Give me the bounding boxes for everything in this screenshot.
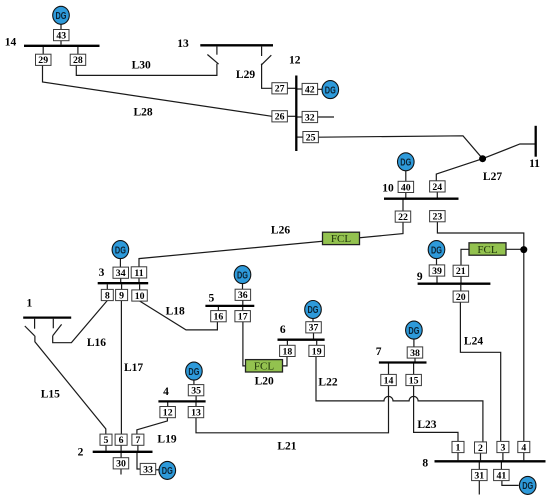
svg-text:DG: DG: [522, 480, 533, 492]
svg-text:L17: L17: [124, 362, 143, 374]
svg-text:19: 19: [312, 346, 322, 357]
svg-text:DG: DG: [325, 84, 336, 96]
svg-text:37: 37: [309, 323, 319, 334]
svg-text:39: 39: [432, 266, 442, 277]
svg-text:35: 35: [191, 386, 201, 397]
svg-text:13: 13: [191, 408, 201, 419]
svg-text:2: 2: [78, 447, 84, 459]
svg-text:29: 29: [38, 55, 48, 66]
svg-text:11: 11: [134, 268, 143, 279]
svg-text:L23: L23: [417, 419, 436, 431]
svg-text:26: 26: [275, 112, 285, 123]
svg-text:11: 11: [529, 158, 540, 170]
svg-text:DG: DG: [56, 10, 67, 22]
svg-text:DG: DG: [400, 157, 411, 169]
svg-text:FCL: FCL: [477, 244, 497, 256]
svg-text:3: 3: [99, 267, 105, 279]
svg-text:3: 3: [500, 442, 505, 453]
svg-text:6: 6: [119, 435, 124, 446]
svg-text:DG: DG: [237, 269, 248, 281]
svg-text:DG: DG: [408, 325, 419, 337]
svg-text:38: 38: [410, 348, 420, 359]
svg-text:5: 5: [209, 293, 215, 305]
svg-text:30: 30: [116, 459, 126, 470]
svg-text:21: 21: [456, 266, 466, 277]
svg-text:22: 22: [398, 212, 408, 223]
svg-text:8: 8: [105, 290, 110, 301]
svg-text:DG: DG: [115, 244, 126, 256]
svg-text:1: 1: [456, 442, 461, 453]
svg-text:1: 1: [27, 297, 33, 309]
svg-text:12: 12: [289, 55, 301, 67]
svg-text:L27: L27: [483, 171, 502, 183]
svg-text:31: 31: [474, 470, 484, 481]
svg-text:14: 14: [384, 375, 394, 386]
svg-text:DG: DG: [308, 304, 319, 316]
svg-text:20: 20: [456, 292, 466, 303]
svg-text:16: 16: [214, 312, 224, 323]
svg-text:27: 27: [275, 84, 285, 95]
svg-text:L15: L15: [41, 389, 60, 401]
svg-text:4: 4: [521, 442, 526, 453]
svg-text:32: 32: [305, 112, 315, 123]
svg-text:10: 10: [135, 291, 145, 302]
svg-text:18: 18: [283, 346, 293, 357]
svg-text:FCL: FCL: [331, 233, 351, 245]
svg-text:L21: L21: [277, 440, 296, 452]
svg-text:7: 7: [376, 346, 382, 358]
svg-text:6: 6: [280, 324, 286, 336]
svg-text:13: 13: [177, 38, 189, 50]
svg-text:23: 23: [433, 212, 443, 223]
svg-text:DG: DG: [431, 244, 442, 256]
svg-text:L29: L29: [236, 69, 255, 81]
svg-text:2: 2: [478, 443, 483, 454]
svg-text:5: 5: [104, 435, 109, 446]
svg-text:10: 10: [382, 182, 394, 194]
svg-text:L20: L20: [255, 376, 274, 388]
svg-text:8: 8: [422, 458, 428, 470]
svg-text:FCL: FCL: [254, 361, 274, 373]
svg-text:4: 4: [163, 386, 169, 398]
svg-text:L19: L19: [157, 434, 176, 446]
svg-text:40: 40: [401, 182, 411, 193]
svg-text:24: 24: [432, 182, 442, 193]
svg-text:L16: L16: [87, 337, 106, 349]
svg-text:L26: L26: [271, 224, 290, 236]
svg-text:DG: DG: [162, 465, 173, 477]
svg-text:33: 33: [143, 464, 153, 475]
svg-text:9: 9: [417, 271, 423, 283]
svg-text:17: 17: [238, 312, 248, 323]
svg-text:L22: L22: [318, 377, 337, 389]
svg-text:28: 28: [73, 55, 83, 66]
svg-text:41: 41: [497, 470, 507, 481]
svg-text:7: 7: [135, 435, 140, 446]
svg-text:15: 15: [409, 375, 419, 386]
svg-text:L24: L24: [464, 336, 483, 348]
svg-text:9: 9: [119, 290, 124, 301]
svg-text:DG: DG: [188, 366, 199, 378]
svg-text:L28: L28: [134, 107, 153, 119]
svg-text:25: 25: [306, 133, 316, 144]
svg-text:14: 14: [5, 36, 17, 48]
svg-text:36: 36: [238, 290, 248, 301]
svg-text:42: 42: [305, 84, 315, 95]
svg-text:12: 12: [163, 408, 173, 419]
svg-text:L30: L30: [132, 59, 151, 71]
svg-text:34: 34: [116, 268, 126, 279]
svg-text:43: 43: [56, 31, 66, 42]
svg-text:L18: L18: [166, 305, 185, 317]
